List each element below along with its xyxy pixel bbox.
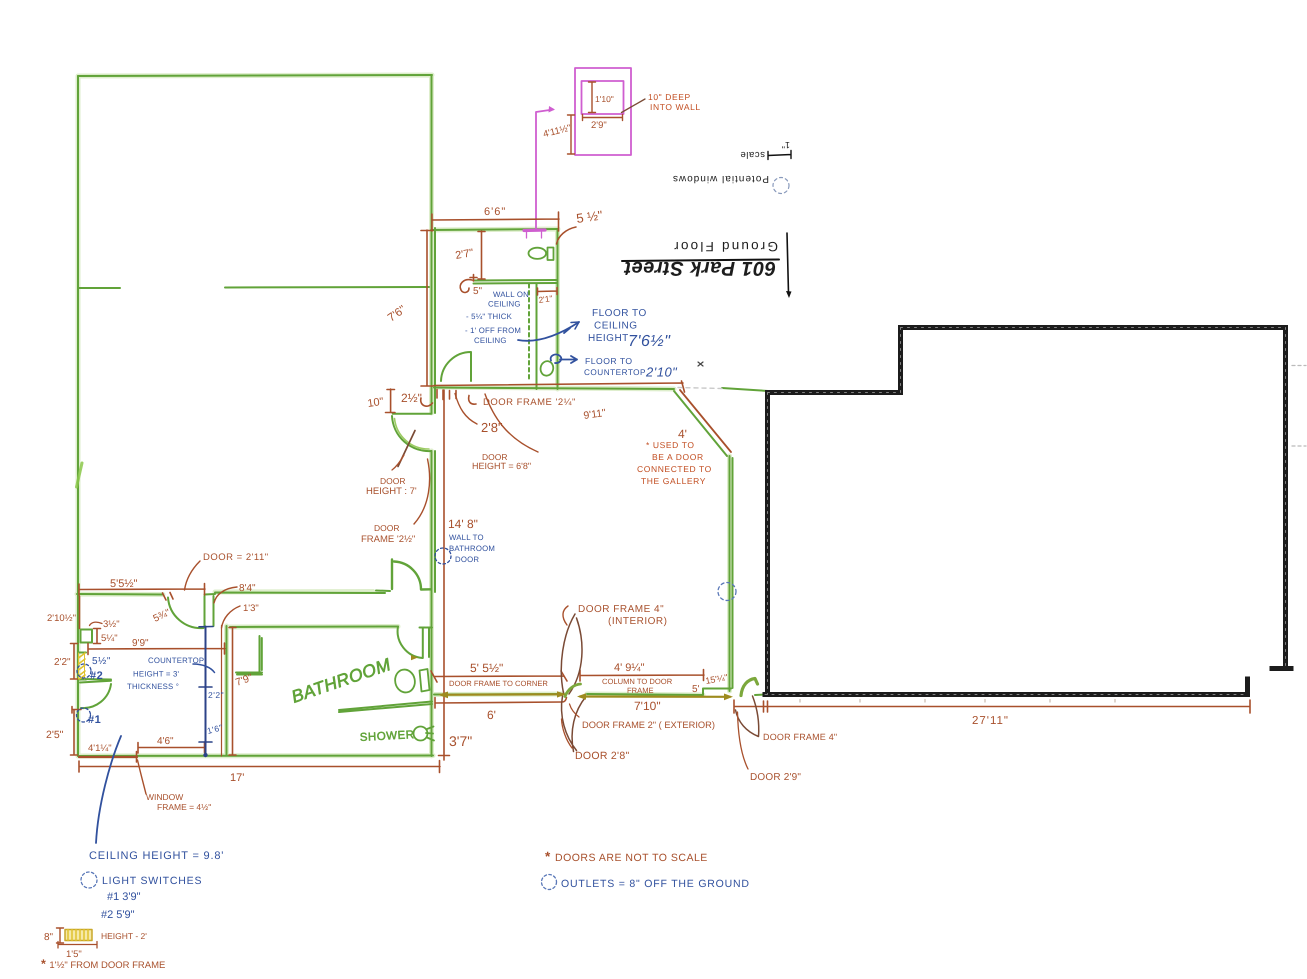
dim diagonal red gallery	[680, 390, 731, 452]
sink kitchen	[539, 360, 554, 377]
dim 9'9	[88, 643, 225, 655]
dashed circle outlets note	[542, 875, 557, 890]
wall bathroom top	[230, 626, 398, 629]
svg-text:#2: #2	[90, 670, 103, 682]
svg-text:HEIGHT = 6'8": HEIGHT = 6'8"	[472, 461, 531, 471]
svg-text:FRAME '2½": FRAME '2½"	[361, 534, 415, 545]
bracket door frame 2.25	[469, 396, 476, 405]
svg-text:27'11": 27'11"	[972, 715, 1009, 727]
window rect left wall	[81, 630, 93, 643]
wall middle divider	[78, 287, 429, 288]
wall central bottom	[434, 689, 766, 696]
dim 2'7 kitchen	[478, 231, 485, 279]
door hall leaf and arc	[392, 560, 431, 590]
svg-text:FLOOR TO: FLOOR TO	[585, 356, 633, 366]
wall left correction mark	[77, 463, 83, 487]
svg-text:DOOR FRAME '2¼": DOOR FRAME '2¼"	[483, 397, 576, 408]
svg-text:- 5¼" THICK: - 5¼" THICK	[466, 312, 513, 321]
green wall glow underlay	[77, 75, 730, 756]
svg-text:6': 6'	[487, 708, 496, 722]
svg-text:10" DEEP: 10" DEEP	[648, 92, 691, 102]
shower rail	[339, 702, 432, 713]
leader 10in deep	[622, 99, 646, 113]
svg-text:* 1'½" FROM DOOR FRAME: * 1'½" FROM DOOR FRAME	[41, 957, 165, 971]
svg-text:HEIGHT - 2': HEIGHT - 2'	[101, 931, 147, 941]
svg-text:scale: scale	[740, 149, 765, 160]
svg-text:THICKNESS °: THICKNESS °	[127, 682, 179, 691]
svg-text:DOOR = 2'11": DOOR = 2'11"	[203, 552, 269, 563]
dim 5'5.5 corner	[431, 671, 567, 682]
svg-text:FRAME = 4½": FRAME = 4½"	[157, 802, 211, 812]
scale bar	[768, 151, 791, 160]
wall central top	[434, 388, 674, 390]
small star mark near countertop note	[698, 362, 703, 366]
black marker texture	[765, 328, 1286, 695]
svg-text:5'5½": 5'5½"	[110, 578, 138, 590]
svg-text:2'7": 2'7"	[454, 247, 474, 262]
magenta leader line	[536, 110, 553, 231]
svg-text:1": 1"	[782, 140, 790, 150]
svg-text:BE A DOOR: BE A DOOR	[652, 452, 704, 462]
wall central right	[730, 456, 733, 691]
toilet kitchen tank	[548, 248, 554, 261]
blue arrow to floor-to-ceiling	[518, 322, 579, 341]
leader 5.5in curve	[557, 227, 577, 244]
svg-text:5': 5'	[692, 684, 700, 695]
door arc left room lower	[81, 684, 111, 708]
window yellow caps	[78, 653, 86, 680]
dim 1'10 line	[589, 82, 596, 113]
svg-text:DOOR FRAME 4": DOOR FRAME 4"	[763, 732, 837, 742]
pencil ticks under black bottom wall	[800, 700, 1115, 703]
svg-text:2'1": 2'1"	[538, 293, 553, 305]
svg-text:BATHROOM: BATHROOM	[289, 654, 394, 707]
detail red marks inside magenta box	[568, 82, 623, 154]
svg-text:4': 4'	[678, 427, 687, 441]
dim 10in door top	[386, 389, 396, 413]
svg-text:Potential windows: Potential windows	[672, 173, 769, 184]
svg-text:COLUMN TO DOOR: COLUMN TO DOOR	[602, 677, 673, 686]
dim 2'5 left	[71, 710, 78, 755]
svg-text:WALL ON: WALL ON	[493, 290, 529, 299]
door lens lower exterior	[562, 696, 586, 752]
yellow baseboard hatch	[65, 930, 92, 941]
hook 2.5in	[421, 398, 433, 406]
title underline	[622, 260, 779, 262]
door bottomleft-room arc	[168, 598, 204, 629]
svg-text:DOOR: DOOR	[380, 476, 406, 486]
leader 8'4	[214, 587, 237, 603]
door frame hash marks	[437, 390, 456, 400]
wall big-room top	[78, 75, 432, 76]
red corner tick kitchen counter	[470, 275, 477, 282]
svg-text:- 1' OFF FROM: - 1' OFF FROM	[465, 326, 521, 335]
svg-text:FRAME: FRAME	[627, 686, 654, 695]
leader door 2'11	[185, 561, 201, 590]
svg-text:DOOR 2'9": DOOR 2'9"	[750, 772, 801, 783]
blue loop arrow countertop	[551, 354, 577, 363]
svg-text:LIGHT SWITCHES: LIGHT SWITCHES	[102, 875, 202, 887]
magenta wall overlay	[524, 228, 545, 232]
door gallery leaf thick green	[741, 679, 758, 696]
dim 2'1 kitchen	[538, 288, 558, 296]
dim 6'6 kitchen top	[432, 212, 559, 231]
toilet bathroom bowl	[393, 668, 417, 695]
svg-text:8": 8"	[44, 932, 54, 943]
wall bottom	[78, 755, 433, 758]
dim 4'6	[138, 742, 205, 753]
dim 2'9 line	[583, 115, 623, 121]
svg-text:2'5": 2'5"	[46, 729, 64, 741]
dim 4'11.5 line	[568, 115, 575, 154]
svg-text:4'11½": 4'11½"	[542, 123, 572, 141]
leader door frame 2.5	[414, 459, 430, 524]
svg-text:7'6½": 7'6½"	[628, 333, 671, 350]
svg-text:CEILING: CEILING	[488, 300, 521, 309]
dim 4'9.25	[580, 670, 704, 682]
svg-text:9'11": 9'11"	[583, 407, 607, 422]
door big-room arc inner highlight	[395, 419, 430, 450]
dim 7'9 bathroom	[229, 627, 236, 755]
fixtures green	[393, 248, 555, 741]
svg-text:OUTLETS = 8" OFF THE GROUND: OUTLETS = 8" OFF THE GROUND	[561, 878, 750, 890]
dashed circle switch1	[77, 708, 91, 722]
red line left of bathroom wall	[221, 626, 223, 757]
svg-text:5' 5½": 5' 5½"	[470, 661, 503, 675]
dim 2'2 left	[71, 644, 78, 680]
svg-text:(INTERIOR): (INTERIOR)	[608, 616, 667, 627]
svg-text:* DOORS ARE NOT TO SCALE: * DOORS ARE NOT TO SCALE	[545, 849, 708, 864]
black room thick walls	[765, 328, 1291, 695]
faint pencil dashes gallery opening	[678, 388, 722, 389]
svg-text:#2 5'9": #2 5'9"	[101, 909, 135, 921]
svg-text:1'3": 1'3"	[243, 603, 259, 614]
wall diagonal gallery	[674, 391, 727, 456]
svg-text:14' 8": 14' 8"	[448, 517, 478, 531]
svg-text:2'2": 2'2"	[54, 657, 71, 668]
wall stub to black room	[722, 388, 768, 391]
svg-text:15'¼": 15'¼"	[705, 672, 729, 686]
svg-text:#1 3'9": #1 3'9"	[107, 891, 141, 903]
door bathroom leaf	[398, 627, 432, 659]
svg-text:17': 17'	[230, 772, 244, 784]
door exterior green leaf	[565, 684, 581, 697]
door leaf diagonal big room	[398, 431, 415, 467]
olive highlight 6ft span	[441, 694, 730, 697]
leader door frame exterior	[570, 704, 580, 717]
svg-text:HEIGHT : 7': HEIGHT : 7'	[366, 486, 417, 497]
svg-text:BATHROOM: BATHROOM	[449, 544, 495, 553]
svg-text:2'10½": 2'10½"	[47, 613, 76, 624]
wall stub double	[205, 596, 214, 626]
leader door 2'8	[562, 719, 573, 748]
red wall seg top of window	[79, 596, 81, 629]
pencil dashes right of black room	[1292, 366, 1306, 447]
blue endpoint dot	[203, 753, 207, 757]
dim 5'5.5 bottomleft room	[79, 584, 205, 596]
magenta outer rect window detail	[575, 68, 631, 155]
svg-text:5": 5"	[473, 286, 483, 297]
wall big-room left	[77, 76, 79, 756]
leader window frame	[138, 760, 147, 794]
svg-text:COUNTERTOP: COUNTERTOP	[584, 368, 646, 377]
svg-text:SHOWER: SHOWER	[360, 729, 415, 744]
svg-text:INTO WALL: INTO WALL	[650, 102, 701, 112]
yellow window hatch	[79, 653, 86, 679]
dim 8in ibeam	[57, 928, 64, 943]
svg-text:8'4": 8'4"	[239, 583, 256, 594]
svg-text:DOOR 2'8": DOOR 2'8"	[575, 750, 630, 762]
svg-text:WINDOW: WINDOW	[146, 792, 183, 802]
svg-text:7'6": 7'6"	[386, 304, 409, 325]
leader door height 7	[392, 455, 404, 470]
bathroom L-bracket	[236, 636, 262, 675]
leader countertop note	[193, 664, 215, 673]
svg-text:4' 9¼": 4' 9¼"	[614, 662, 645, 674]
svg-text:5 ½": 5 ½"	[575, 207, 604, 226]
door kitchen leaf	[441, 352, 471, 381]
svg-text:HEIGHT = 3': HEIGHT = 3'	[133, 670, 180, 679]
door big-room leaf swung	[393, 413, 432, 415]
dashed circle wall-to-bathroom	[435, 548, 451, 564]
long leader ceiling height	[96, 736, 121, 843]
tick at y710	[72, 707, 81, 714]
svg-text:3'7": 3'7"	[449, 733, 472, 749]
corner squiggle 5in	[460, 280, 472, 293]
svg-text:4'1¼": 4'1¼"	[88, 743, 112, 754]
window sill left room	[80, 679, 111, 683]
dashed circle switch2	[77, 664, 91, 678]
leader door height 6'8	[485, 394, 538, 452]
red underline 1'5	[58, 942, 97, 949]
tick window frame	[136, 752, 138, 763]
door lens upper exterior	[561, 614, 582, 694]
title pointer line	[787, 233, 789, 293]
wall kitchen right	[557, 229, 559, 389]
svg-text:2½": 2½"	[401, 391, 422, 405]
dim 17ft	[79, 761, 440, 773]
wall bathroom left	[226, 626, 228, 755]
svg-text:THE GALLERY: THE GALLERY	[641, 476, 706, 486]
magenta arrowhead	[549, 106, 556, 113]
red window overlay bottom wall	[79, 756, 137, 758]
svg-text:CEILING HEIGHT = 9.8': CEILING HEIGHT = 9.8'	[89, 850, 224, 862]
svg-text:CEILING: CEILING	[474, 336, 507, 345]
wall right main vertical	[431, 76, 433, 756]
leader door frame interior	[563, 606, 568, 625]
leader 3.5	[90, 622, 103, 625]
toilet kitchen bowl	[529, 248, 547, 259]
wall kitchen dashed partition	[528, 284, 530, 380]
svg-text:DOOR: DOOR	[374, 523, 400, 533]
svg-text:3½": 3½"	[103, 619, 120, 630]
svg-text:HEIGHT: HEIGHT	[588, 333, 629, 344]
leader 1'3	[222, 606, 241, 628]
svg-text:9'9": 9'9"	[132, 638, 149, 649]
svg-text:1'10": 1'10"	[595, 94, 614, 104]
leader door 2'9	[738, 712, 749, 769]
dashed circle light switches	[81, 872, 97, 888]
magenta inner rect	[582, 81, 624, 114]
svg-text:6'6": 6'6"	[484, 206, 506, 218]
wall kitchen counter	[474, 280, 558, 284]
door ticks bottomleft	[163, 593, 174, 601]
svg-text:* USED TO: * USED TO	[646, 440, 695, 450]
door big-room arc	[392, 416, 432, 451]
dim 3'7 foot	[443, 756, 445, 761]
svg-text:DOOR FRAME 2" ( EXTERIOR): DOOR FRAME 2" ( EXTERIOR)	[582, 720, 715, 730]
shower head circle	[414, 727, 428, 741]
wall bottomleft-room top	[77, 591, 390, 595]
svg-text:5½": 5½"	[92, 656, 111, 667]
svg-text:CONNECTED TO: CONNECTED TO	[637, 464, 712, 474]
dashed circle outlet right wall	[718, 583, 736, 601]
dim 5.25 window	[94, 629, 101, 644]
svg-text:4'6": 4'6"	[157, 736, 174, 747]
svg-text:10": 10"	[367, 396, 385, 410]
olive arrowheads	[411, 655, 733, 700]
svg-text:CEILING: CEILING	[594, 321, 638, 332]
svg-text:Ground Floor: Ground Floor	[672, 239, 778, 254]
wall right inner line	[434, 228, 436, 592]
svg-text:WALL TO: WALL TO	[449, 533, 484, 542]
svg-text:1'5": 1'5"	[66, 949, 82, 960]
svg-text:2'9": 2'9"	[591, 120, 607, 131]
svg-text:5¼": 5¼"	[101, 633, 118, 644]
wall kitchen top	[431, 229, 558, 230]
blue countertop vertical bottomleft	[205, 627, 207, 755]
svg-text:2'10": 2'10"	[645, 365, 678, 380]
dim 7'6 left of kitchen	[421, 230, 433, 386]
svg-text:2'2": 2'2"	[208, 690, 224, 700]
svg-text:DOOR: DOOR	[455, 555, 479, 564]
dim 6ft	[435, 698, 567, 709]
svg-text:7'10": 7'10"	[634, 699, 661, 713]
door lens right lower	[736, 696, 759, 737]
leader 2'8	[455, 394, 477, 425]
svg-text:DOOR FRAME TO CORNER: DOOR FRAME TO CORNER	[449, 679, 548, 688]
svg-text:DOOR FRAME 4": DOOR FRAME 4"	[578, 604, 664, 615]
dim 9'11 line	[434, 381, 685, 392]
svg-text:5¾": 5¾"	[152, 607, 173, 625]
svg-text:FLOOR TO: FLOOR TO	[592, 308, 647, 319]
toilet bathroom tank	[420, 669, 430, 692]
wall kitchen partition	[536, 284, 538, 389]
dim vertical 14'8 wall line	[439, 390, 450, 756]
potential windows dashed circle	[773, 178, 789, 194]
svg-text:2'8": 2'8"	[481, 420, 503, 435]
dim 27'11	[734, 700, 1250, 713]
